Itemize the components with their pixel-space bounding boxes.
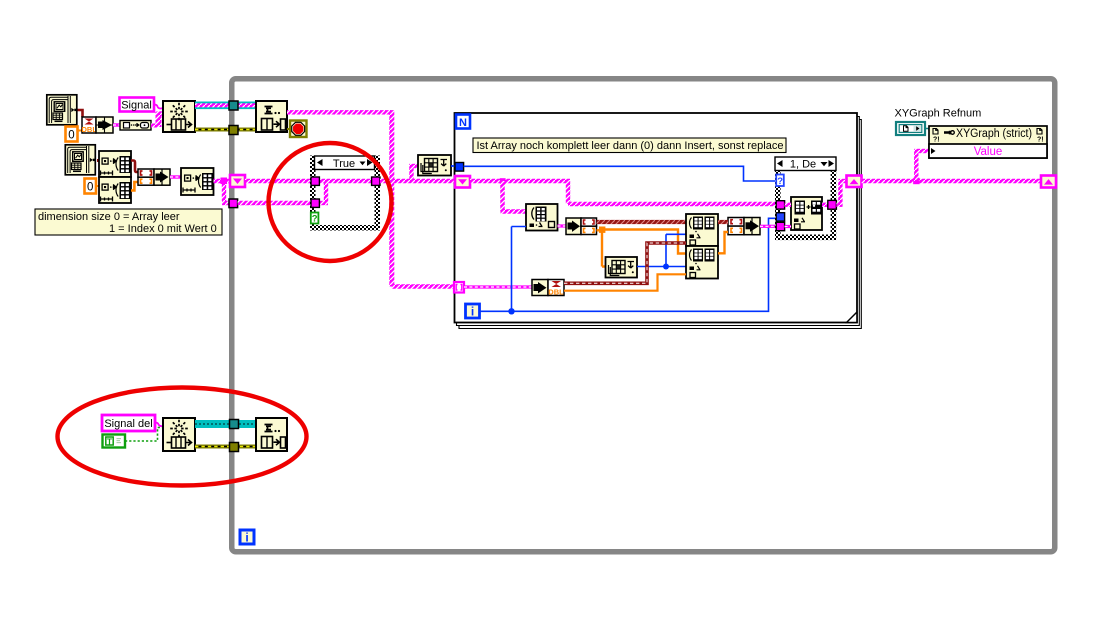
dequeue element node (bottom) [256, 418, 287, 451]
unbundle + to-DBL node (lower) [532, 280, 564, 297]
wire: SR to case left tunnel (magenta hatched) [245, 179, 312, 183]
wire: dequeued cluster output (magenta hatched) going right [287, 110, 391, 114]
free label: Ist Array noch komplett leer [473, 138, 786, 153]
for loop N frame (stacked pages) [455, 113, 862, 329]
while loop iteration terminal i [240, 530, 254, 545]
numeric constant 0 (second row) [85, 179, 100, 194]
tunnel: while loop right border (magenta, up arrow) [1041, 176, 1056, 188]
inner case selector terminal ? (blue) [776, 175, 784, 187]
wire: Signal del label to enqueue (magenta squiggle) [155, 423, 163, 427]
tunnel: queue refnum through loop border (teal) [229, 101, 238, 110]
wire: element cluster (pink dashed) tunnel to DBL node [464, 285, 532, 288]
wire: for loop output across to while border tunnel (magenta hatched) [862, 151, 1043, 184]
XYGraph refnum control terminal [896, 122, 925, 135]
while loop border [232, 79, 1055, 552]
wire: inner case out up to right shift register (magenta hatched) [836, 181, 846, 207]
dequeue element node U2 [256, 101, 287, 132]
svg-text:N: N [459, 117, 467, 129]
case selector terminal ? (green) [311, 213, 319, 225]
shift register left (magenta, down arrow) [230, 175, 245, 187]
wire: N count blue wire to inner case selector [464, 166, 776, 181]
svg-text:XYGraph Refnum: XYGraph Refnum [895, 108, 982, 120]
wire: X array (maroon hatched) unbundle to replace-subset A [597, 220, 687, 224]
wire: X scalar (maroon dashed) DBL node to replace A [564, 243, 686, 283]
inner case wires [785, 205, 828, 227]
svg-text:0: 0 [68, 130, 74, 142]
conversion node: red X over DBL + build array [81, 117, 113, 134]
inner case tunnels on left border [776, 201, 784, 231]
wire: queue refnum cyan band (bottom chain) [195, 420, 256, 428]
wire: queue refnum cyan band node U1 to U2 [195, 102, 256, 110]
wire: indexed element out (pink dashed) [558, 224, 567, 227]
wire: replace B out (orange) to bundle [718, 232, 728, 253]
wire: refnum to property node (thin) [926, 129, 930, 131]
free label: dimension size comment [35, 209, 222, 235]
wire: size (blue) to replace nodes A and B [637, 234, 686, 269]
wire: lower init-array to bracket node (orange) [131, 182, 138, 191]
wire: build array to index array (pink dashed) [170, 175, 181, 178]
wire: VI2 output to initialize-array (dark red) [97, 159, 99, 162]
case tunnels (magenta squares) [311, 177, 380, 207]
svg-text:1, De: 1, De [790, 159, 816, 171]
tunnel: olive (bottom chain) [230, 443, 239, 452]
svg-text:?: ? [312, 214, 318, 225]
tunnel: error cluster through loop border (olive) [229, 126, 238, 135]
svg-text:?!: ?! [1037, 137, 1044, 144]
bundle node (brackets + arrow) right [728, 218, 760, 235]
wire: i index (blue) to index array and inner case tunnel [480, 218, 776, 314]
red annotation ellipse around case [269, 143, 392, 261]
tunnel: teal (bottom chain) [230, 420, 239, 429]
replace array subset node B (lower) [686, 246, 718, 279]
svg-text:Signal del: Signal del [104, 418, 152, 430]
wire: dynamic node up to enqueue input (magenta hatched) [151, 112, 163, 127]
array-to-cluster bracket node (maroon/orange) [138, 169, 154, 185]
wire: upper init-array to cluster bracket node (dark red squiggle) [131, 161, 138, 173]
label: XYGraph Refnum [895, 108, 982, 120]
wire: SR array to index array + inner case (magenta hatched) [470, 178, 776, 211]
wire: Y value (orange) unbundle to size node and node B [597, 227, 687, 267]
svg-text:?!: ?! [933, 137, 940, 144]
enqueue element node U1 [163, 101, 195, 132]
tunnel: cluster array into loop (magenta square) [229, 199, 238, 208]
convert to dynamic data node (flat) [120, 121, 151, 131]
svg-text:i: i [245, 531, 248, 545]
red annotation ellipse around signal-del chain [58, 388, 307, 486]
insert into array node (inner case) [791, 197, 822, 230]
unbundle node (arrow + brackets) [566, 218, 597, 235]
sub-VI icon (top, write file VI) [47, 95, 77, 125]
index array node (second row) [181, 168, 214, 195]
array size node (in loop) [606, 257, 638, 278]
for loop N terminal [456, 115, 470, 129]
svg-text:DBL: DBL [81, 125, 97, 134]
replace array subset node A (upper) [686, 214, 718, 246]
wire: Y scalar (orange) DBL node to replace B [564, 274, 686, 290]
wire: matrix node to for loop tunnel (blue) [451, 165, 456, 167]
convert dynamic-to-array matrix node [418, 155, 451, 176]
numeric constant 0 (top) [66, 127, 83, 142]
index array node (in loop) [526, 204, 558, 231]
initialize array node (lower) [99, 177, 131, 203]
tunnel: array size blue square on for loop border [455, 163, 464, 172]
svg-text:1 = Index 0 mit Wert 0: 1 = Index 0 mit Wert 0 [109, 223, 217, 235]
shift register input tunnel on for loop (magenta, down arrow) [455, 176, 470, 188]
svg-text:?: ? [777, 176, 783, 187]
sub-VI icon (second, read file VI) [65, 145, 95, 175]
svg-text:True: True [333, 158, 355, 170]
svg-text:Signal: Signal [121, 100, 152, 112]
tunnel: indexed element in (magenta bordered, auto-index) [454, 282, 464, 293]
for loop dog-ear corner [847, 312, 857, 322]
Signal del label [102, 415, 155, 431]
svg-text:Ist Array noch komplett leer d: Ist Array noch komplett leer dann (0) da… [477, 140, 784, 152]
wire: error cluster olive dashed U1 to U2 [195, 128, 256, 132]
wire: case output to matrix node and for loop (magenta hatched) [380, 166, 455, 181]
property node XYGraph (strict) / Value [929, 126, 1047, 158]
wire: bundled cluster (pink dashed) to inner case [760, 225, 776, 228]
svg-text:DBL: DBL [548, 288, 564, 297]
svg-text:T: T [107, 436, 113, 446]
inner case right tunnel (magenta) [828, 200, 837, 209]
case selector label: True [315, 156, 375, 170]
wire: Signal label to enqueue node (magenta squiggle) [154, 105, 163, 109]
case inner wires (magenta hatched) [319, 181, 372, 203]
wire: replace A out (maroon hatched) to bundle [718, 220, 728, 224]
case structure True border (checkered) [313, 158, 378, 228]
enqueue element node (bottom) [163, 418, 195, 451]
inner case selector label: 1, De [775, 157, 836, 171]
wire: VI1 output to DBL conversion (dark red) [77, 110, 83, 117]
svg-text:i: i [471, 305, 474, 319]
wire: error cluster olive dashed (bottom chain) [195, 445, 256, 449]
for loop iteration terminal i [466, 304, 480, 319]
wire: index array to shift register and lower tunnel (magenta hatched) [214, 178, 231, 204]
svg-text:Value: Value [974, 146, 1003, 158]
shift register right (magenta, up arrow) [847, 176, 862, 188]
initialize array node (upper) [99, 151, 131, 177]
svg-text:dimension size 0 = Array leer: dimension size 0 = Array leer [38, 211, 180, 223]
build array node (second row) [154, 169, 170, 185]
wire: boolean (green dotted) to enqueue [125, 428, 163, 442]
svg-text:0: 0 [87, 182, 93, 194]
wire: lower tunnel to case (magenta hatched) [238, 201, 312, 205]
svg-text:XYGraph (strict): XYGraph (strict) [956, 128, 1032, 140]
Signal label (control reference label) [120, 98, 155, 112]
wire: build array to convert-to-dynamic node (pink dashed) [113, 123, 120, 126]
boolean True constant [103, 435, 126, 448]
inner case border (checkered) [778, 160, 834, 238]
wire: dequeue output down the left of for loop (magenta hatched, long) [392, 110, 454, 286]
stop button constant [287, 121, 307, 138]
